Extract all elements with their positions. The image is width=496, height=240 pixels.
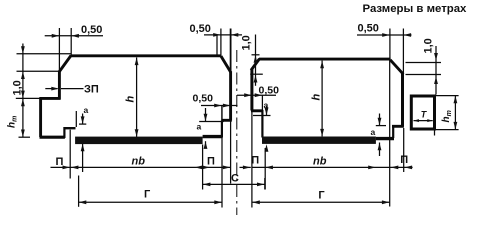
label П right1 xyxy=(251,155,259,167)
left inner step riser xyxy=(221,121,223,138)
ext of left-profile right edge down xyxy=(230,121,232,184)
dim 0,50 inner-right: ext line from step corner xyxy=(261,95,263,110)
right profile left bevel xyxy=(251,59,260,70)
svg-text:П: П xyxy=(207,156,215,168)
dim 0,50 inner-right: arrows xyxy=(244,93,262,97)
dim a outer-left: notch top ext tick xyxy=(79,123,86,125)
right chain tick 2 (bevel bottom level) xyxy=(406,74,442,76)
label Т (italic) xyxy=(421,109,428,119)
left chain arrows xyxy=(21,46,25,137)
dim 0,50 top-middle: ext line inner xyxy=(216,35,218,55)
svg-text:h: h xyxy=(311,94,323,101)
svg-text:1,0: 1,0 xyxy=(240,35,252,50)
dim a outer-left ext shaft down through row1 xyxy=(82,144,84,172)
row1 arrows right xyxy=(265,166,412,170)
label a outer-right xyxy=(371,127,376,137)
right profile right bevel xyxy=(390,60,403,74)
dim a outer-left: vertical + arrows xyxy=(82,114,84,125)
ditch box outer xyxy=(411,96,434,129)
svg-text:С: С xyxy=(231,173,239,185)
svg-text:Т: Т xyxy=(421,109,428,119)
left profile top surface xyxy=(71,54,222,57)
label a inner-left xyxy=(197,122,202,132)
svg-text:ЗП: ЗП xyxy=(84,84,99,96)
ext of right-profile right edge down xyxy=(403,128,405,172)
dim 0,50 inner-left: label xyxy=(193,93,214,105)
ext of right-profile left edge down xyxy=(251,111,253,208)
dim hт right: top tick xyxy=(436,95,459,97)
label h left (rotated italic) xyxy=(125,96,137,103)
dim 1,0 middle: vertical line, ticks, arrows xyxy=(255,35,257,86)
right outer base strip xyxy=(376,137,394,140)
label a outer-left xyxy=(84,105,89,115)
dim a inner-right: step top ext tick xyxy=(253,115,271,117)
left chain ext line A (top surface level) xyxy=(17,53,72,55)
label hт left (rotated) xyxy=(7,116,19,128)
right outer step top xyxy=(392,125,404,128)
dim hт right: bottom tick xyxy=(436,129,459,131)
dim a outer-right: step top ext tick xyxy=(376,125,386,127)
row3 Г left dimension line xyxy=(79,201,222,203)
svg-text:П: П xyxy=(56,156,64,168)
dim 0,50 inner-left: line xyxy=(201,105,238,107)
row1 ext vertical x=200.8 (bar end) xyxy=(202,145,204,190)
row1 ext vertical x=70 xyxy=(69,130,71,179)
left ballast bar xyxy=(75,137,203,145)
Г left ext line xyxy=(78,176,80,207)
dim a inner-right: vertical + arrows xyxy=(266,106,268,115)
label П left2 xyxy=(207,156,215,168)
dim a inner-left: vertical line and arrows xyxy=(205,108,207,121)
ext line above bar left end xyxy=(75,111,77,127)
label h right (rotated italic) xyxy=(311,94,323,101)
label С xyxy=(231,173,239,185)
left notch riser xyxy=(63,127,65,138)
row1 arrows left (П / nb boundary) xyxy=(63,166,251,170)
label Г right xyxy=(318,190,325,202)
row1 right ext vertical x=265.2 xyxy=(264,148,266,190)
left chain ext line B (bevel bottom level) xyxy=(17,70,60,72)
svg-text:hт: hт xyxy=(7,116,19,128)
dim 0,50 top-left: ext line at bevel top xyxy=(70,28,72,55)
svg-text:1,0: 1,0 xyxy=(12,80,24,95)
left notch top xyxy=(64,127,76,129)
right outer step riser xyxy=(392,127,394,139)
row2 С right ext xyxy=(264,178,266,190)
row1 dimension line right xyxy=(253,166,413,168)
right inner step top xyxy=(251,109,263,112)
dim 0,50 inner-left: ext line from step corner xyxy=(221,106,223,121)
dim 0,50 top-middle: label xyxy=(190,23,211,35)
left base line xyxy=(40,136,65,139)
left profile left edge xyxy=(58,71,61,100)
label hт right (rotated) xyxy=(441,110,453,122)
dim h left: line and arrows xyxy=(136,58,138,137)
row3 Г left arrows xyxy=(79,200,222,204)
label nb left (italic) xyxy=(132,156,146,168)
label 1,0 middle (rotated) xyxy=(240,35,252,50)
ЗП leader line with arrow xyxy=(45,88,57,90)
svg-text:0,50: 0,50 xyxy=(81,24,102,36)
centerline between tracks (dash-dot) xyxy=(236,50,238,215)
title: Размеры в метрах xyxy=(363,3,468,15)
svg-text:а: а xyxy=(371,127,376,137)
left chain vertical dim line xyxy=(22,44,24,138)
label nb right (italic) xyxy=(313,156,327,168)
dim 0,50 top-middle: arrows xyxy=(213,33,238,37)
svg-text:0,50: 0,50 xyxy=(259,85,280,97)
dim 0,50 inner-right: line xyxy=(237,94,276,96)
label Г left xyxy=(144,189,151,201)
label a inner-right xyxy=(264,100,269,110)
dim 0,50 top-right: label xyxy=(358,23,379,35)
left chain ext line at berm xyxy=(16,97,41,99)
dim a inner-left: step top ext tick xyxy=(199,121,224,123)
dim T inside box: line and arrows xyxy=(414,120,433,122)
right ballast bar xyxy=(262,137,376,144)
svg-text:h: h xyxy=(125,96,137,103)
right chain arrows xyxy=(434,53,438,84)
svg-text:Г: Г xyxy=(318,190,325,202)
dim 0,50 top-right: ext at bevel top corner xyxy=(389,29,391,60)
label 1,0 right (rotated) xyxy=(423,38,435,53)
left inner base strip xyxy=(203,135,223,138)
row2 С arrows xyxy=(203,183,265,187)
svg-text:Размеры в метрах: Размеры в метрах xyxy=(363,3,468,15)
left profile left bevel xyxy=(59,56,71,72)
right profile left edge xyxy=(250,69,253,110)
svg-text:nb: nb xyxy=(313,156,327,168)
row3 Г right dimension line xyxy=(252,201,390,203)
row2 С dimension line xyxy=(203,183,265,185)
row3 Г right arrows xyxy=(252,200,389,204)
svg-text:0,50: 0,50 xyxy=(358,23,379,35)
svg-text:а: а xyxy=(264,100,269,110)
right profile top surface xyxy=(259,58,391,61)
svg-text:0,50: 0,50 xyxy=(193,93,214,105)
left profile right edge xyxy=(229,72,232,121)
left chain ext line at base xyxy=(19,136,31,138)
left berm step xyxy=(40,97,61,100)
dim h right: line and arrows xyxy=(321,61,323,137)
dim 0,50 inner-left: arrows xyxy=(214,104,230,108)
ext vertical at right bevel corner down (бровка) xyxy=(389,59,391,207)
dim 0,50 top-middle: ext at right edge xyxy=(230,29,232,72)
dim 0,50 top-middle: ext at bevel top corner xyxy=(220,29,222,56)
row1 dimension line left xyxy=(51,166,232,168)
dim 0,50 top-right: dimension line xyxy=(357,34,412,36)
dim 0,50 top-left: arrows xyxy=(52,34,79,38)
dim a outer-right: vertical + arrows xyxy=(379,114,381,126)
dim 0,50 top-left: label xyxy=(81,24,102,36)
label П left1 xyxy=(56,156,64,168)
right chain vertical dim line xyxy=(435,46,437,95)
svg-text:а: а xyxy=(84,105,89,115)
svg-text:Г: Г xyxy=(144,189,151,201)
left profile right bevel xyxy=(221,56,231,73)
dim 0,50 top-left: dimension line xyxy=(45,35,103,37)
dim hт right: vertical line and arrows xyxy=(454,96,456,130)
svg-text:а: а xyxy=(197,122,202,132)
svg-text:nb: nb xyxy=(132,156,146,168)
dim 0,50 top-middle: dimension line xyxy=(204,34,242,36)
svg-text:hт: hт xyxy=(441,110,453,122)
dim 0,50 top-right: arrows xyxy=(382,33,411,37)
dim 0,50 top-left: ext line at edge xyxy=(58,28,60,71)
label П right2 xyxy=(400,154,408,166)
right profile right edge xyxy=(401,74,404,127)
box right edge extension below xyxy=(434,130,436,135)
left inner step top xyxy=(221,119,231,122)
right inner step riser xyxy=(261,110,263,138)
label 1,0 left (rotated) xyxy=(12,80,24,95)
dim 0,50 inner-right: label xyxy=(259,85,280,97)
left outer wall xyxy=(39,97,42,137)
long ext vertical x=222 xyxy=(221,106,223,208)
label ЗП xyxy=(84,84,99,96)
svg-text:1,0: 1,0 xyxy=(423,38,435,53)
svg-text:0,50: 0,50 xyxy=(190,23,211,35)
dim 0,50 top-right: ext at right edge xyxy=(402,29,404,74)
right chain tick 1 (surface level) xyxy=(406,62,442,64)
